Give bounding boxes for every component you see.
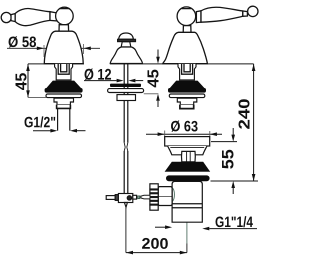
- dim Ø12 tail right: [135, 80, 143, 82]
- dim Ø58 arrow left: [37, 47, 44, 51]
- right tap black gasket band: [168, 88, 206, 93]
- popup clamp block: [118, 194, 132, 203]
- dim G1/2 tail right: [77, 130, 86, 132]
- right tap black gasket dome: [170, 81, 203, 88]
- dim 240 arrow up: [252, 64, 256, 71]
- dim Ø12: [84, 79, 143, 83]
- dim G1/2 arrow right-pointing: [50, 129, 57, 133]
- svg-text:55: 55: [220, 149, 238, 169]
- left tap ball flat top: [60, 8, 69, 10]
- dim 200 arrow left: [126, 251, 133, 255]
- dim 45 left bottom ext line: [28, 96, 47, 98]
- right tap handle end ball: [248, 6, 258, 16]
- popup clamp bead: [115, 195, 118, 201]
- waste waist: [168, 146, 207, 155]
- svg-text:G1"1/4: G1"1/4: [215, 214, 254, 231]
- popup clamp right stub: [133, 195, 137, 199]
- left tap handle collar: [11, 14, 15, 22]
- right tap ball joint: [177, 7, 196, 26]
- popup clamp left rod: [106, 196, 115, 200]
- dim Ø63 ext left: [164, 131, 166, 141]
- dim 45 left arrow down: [26, 90, 30, 97]
- popup washer outlined: [108, 89, 144, 93]
- popup knob cap dome: [119, 33, 134, 39]
- svg-text:240: 240: [237, 98, 254, 129]
- dim 200 right ext: [186, 244, 188, 253]
- left tap cartridge clamp U detail: [58, 64, 69, 74]
- left tap shank cup: [57, 105, 71, 109]
- popup clamp right tick: [138, 196, 140, 199]
- dim 55 lower line: [232, 188, 234, 194]
- dim Ø63 line: [146, 133, 222, 135]
- popup rod lower: [124, 151, 128, 193]
- dim 240: [252, 64, 256, 181]
- svg-text:Ø 63: Ø 63: [170, 118, 198, 135]
- dim 45 left vertical line: [27, 64, 29, 98]
- left tap black gasket band: [45, 88, 83, 93]
- right tap cartridge clamp U detail: [182, 64, 193, 74]
- right tap shank cup: [180, 105, 194, 109]
- popup knob neck: [121, 42, 131, 47]
- waste plug barrel: [182, 151, 196, 161]
- right tap backnut: [177, 98, 197, 104]
- waste pivot rod: [141, 195, 150, 199]
- right tap handle collar: [243, 11, 248, 16]
- dim 55 arrow down: [231, 135, 235, 142]
- dim 45 right upper line: [157, 50, 159, 58]
- dim Ø58 arrow right: [84, 47, 91, 51]
- popup locknut: [117, 95, 136, 101]
- waste plug barrel lines: [187, 151, 191, 161]
- dim G1/2 arrow left-pointing: [70, 129, 77, 133]
- right tap neck: [183, 26, 191, 33]
- svg-text:G1/2": G1/2": [24, 114, 56, 131]
- dim 240/55 bottom ext: [211, 180, 259, 182]
- dim 55 arrow up: [231, 181, 235, 188]
- popup knob cap band: [118, 39, 136, 41]
- dim 200 left ext: [125, 208, 127, 253]
- dim G1-1/4 arrow right-pointing: [165, 225, 172, 229]
- waste socket arc: [172, 188, 174, 202]
- waste black o-ring: [166, 175, 210, 181]
- left tap cartridge clamp outer: [55, 64, 73, 80]
- dim 55: [211, 128, 259, 194]
- waste flange: [165, 137, 210, 146]
- svg-text:45: 45: [146, 69, 163, 88]
- waste pivot rod tip: [138, 196, 140, 198]
- dim 45 right lower line: [157, 101, 159, 107]
- popup clamp tail: [124, 203, 127, 208]
- right tap washer: [169, 94, 205, 98]
- dim 240 arrow down: [252, 174, 256, 181]
- dim Ø58 ext left: [43, 45, 45, 57]
- dim Ø63 arrow right: [210, 132, 217, 136]
- waste body band: [172, 204, 202, 208]
- left tap washer: [46, 94, 82, 98]
- dim 45 right arrow up: [156, 94, 160, 101]
- dim G1-1/4 shelf line: [209, 228, 257, 230]
- right tap handle socket: [196, 11, 201, 23]
- dim 45 right: [144, 50, 160, 108]
- left tap backnut: [54, 98, 74, 104]
- left tap tailpipe: [58, 108, 70, 130]
- wire: base plane line right segment: [110, 63, 254, 65]
- waste pivot boss midline: [158, 196, 171, 198]
- waste pivot nut column: [150, 184, 158, 210]
- dim G1-1/4 left line: [155, 226, 166, 228]
- dim Ø63 ext right: [209, 131, 211, 140]
- dim 55 upper line: [232, 128, 234, 136]
- right tap cartridge clamp outer: [178, 64, 196, 80]
- dim G1-1/4 arrow left-pointing: [202, 227, 209, 231]
- popup rod upper: [124, 64, 128, 143]
- dim G1/2 line under text: [33, 130, 51, 132]
- waste centerline: [186, 196, 188, 244]
- left tap handle end ball: [1, 12, 11, 22]
- svg-text:200: 200: [141, 236, 168, 253]
- popup clamp screw circle: [127, 196, 131, 200]
- waste body: [172, 181, 202, 222]
- popup rod break joint: [124, 143, 128, 151]
- dim Ø12 arrow right-pointing: [117, 79, 124, 83]
- dim 240 vertical line: [253, 64, 255, 181]
- dim Ø12 line: [84, 80, 117, 82]
- right tap ball flat top: [182, 8, 192, 10]
- waste pivot boss: [158, 187, 172, 206]
- dim 45 right bottom ext: [144, 93, 159, 95]
- left tap handle body: [15, 9, 50, 26]
- dimension layer (drawn first, bodies painted over): [7, 44, 254, 64]
- waste waist line: [170, 147, 204, 149]
- wire: base plane line left segment: [28, 63, 84, 65]
- waste black cone seal: [165, 162, 209, 171]
- dim 200 arrow right: [180, 251, 187, 255]
- left tap neck: [59, 25, 69, 32]
- popup knob bell: [110, 47, 142, 64]
- left tap black gasket dome: [47, 81, 80, 88]
- svg-text:45: 45: [13, 73, 30, 91]
- dim Ø58 line: [7, 47, 100, 49]
- dim 55 top ext: [211, 141, 237, 143]
- popup washer solid: [110, 84, 141, 87]
- dim Ø58 ext right: [83, 44, 85, 54]
- right tap handle body: [201, 7, 243, 22]
- dim Ø63 arrow left: [158, 132, 165, 136]
- left tap bell body: [44, 31, 83, 63]
- dim G1"1/4: [155, 225, 257, 230]
- left tap ball joint: [56, 7, 74, 25]
- left tap handle socket: [50, 12, 57, 21]
- right tap bell body: [163, 32, 208, 63]
- svg-text:Ø 58: Ø 58: [8, 34, 37, 51]
- dim Ø12 arrow left-pointing: [128, 79, 135, 83]
- svg-text:Ø 12: Ø 12: [84, 67, 112, 84]
- dim 200: [126, 208, 187, 255]
- waste pivot nut ribs: [149, 188, 158, 205]
- dim 200 line: [126, 252, 187, 254]
- dim 45 left arrow up: [26, 64, 30, 71]
- dim 45 right arrow down: [156, 57, 160, 64]
